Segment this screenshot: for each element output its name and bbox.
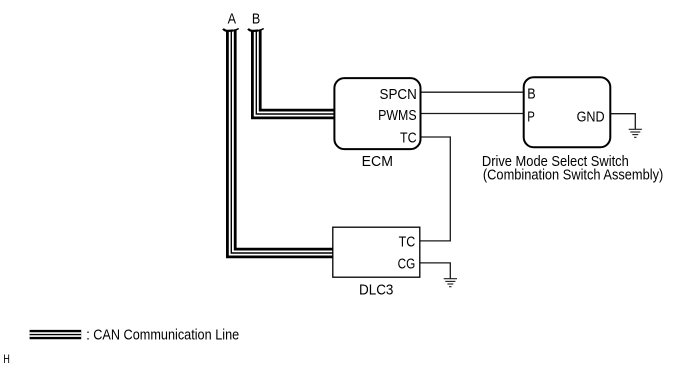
svg-text:: CAN Communication Line: : CAN Communication Line xyxy=(86,327,239,344)
svg-text:TC: TC xyxy=(400,129,417,146)
svg-text:B: B xyxy=(252,10,260,27)
svg-text:SPCN: SPCN xyxy=(380,86,417,103)
svg-text:PWMS: PWMS xyxy=(378,107,417,124)
svg-text:CG: CG xyxy=(398,256,416,273)
svg-text:P: P xyxy=(527,109,535,126)
svg-text:H: H xyxy=(3,352,10,366)
svg-text:ECM: ECM xyxy=(362,153,393,170)
svg-text:(Combination Switch Assembly): (Combination Switch Assembly) xyxy=(483,167,663,184)
svg-text:GND: GND xyxy=(577,109,605,126)
svg-text:B: B xyxy=(527,86,535,103)
svg-text:TC: TC xyxy=(399,234,416,251)
svg-text:DLC3: DLC3 xyxy=(359,281,393,298)
svg-text:A: A xyxy=(228,10,236,27)
